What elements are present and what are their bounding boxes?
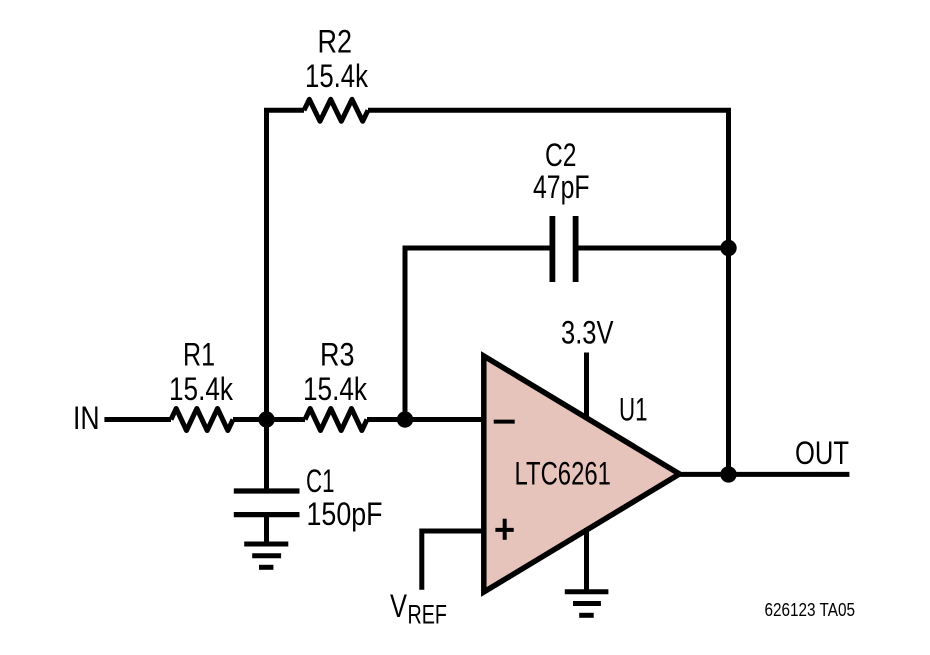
svg-text:15.4k: 15.4k [303, 371, 368, 407]
svg-text:C1: C1 [306, 463, 335, 499]
resistor R2 [304, 99, 368, 121]
wire: C2 to right vertical rail [579, 246, 729, 251]
svg-text:V: V [390, 588, 408, 624]
wire: 3.3V supply to op-amp [584, 353, 589, 420]
svg-text:U1: U1 [619, 391, 648, 427]
svg-text:R1: R1 [183, 337, 215, 373]
wire: C1 to ground [264, 515, 269, 544]
node A junction dot [258, 411, 274, 427]
svg-text:15.4k: 15.4k [305, 58, 369, 94]
ground (below C1) [244, 544, 288, 567]
wire: R3 to op-amp inverting input [367, 417, 484, 422]
svg-text:REF: REF [408, 599, 448, 629]
wire: IN to R1 [104, 417, 171, 422]
ground (below op-amp) [565, 592, 609, 616]
junction dot C2 / feedback rail [720, 240, 736, 256]
svg-text:R2: R2 [318, 24, 353, 60]
svg-text:C2: C2 [545, 137, 577, 173]
svg-text:150pF: 150pF [307, 496, 383, 532]
svg-text:LTC6261: LTC6261 [515, 456, 611, 492]
wire: node A up and across to R2 [267, 110, 305, 419]
wire: node A to R3 [233, 417, 305, 422]
capacitor C1 [234, 491, 300, 515]
junction dot output [720, 466, 736, 482]
wire: output to OUT [680, 472, 850, 477]
op-amp non-inverting input plus sign [495, 519, 513, 540]
svg-text:IN: IN [73, 400, 100, 436]
svg-text:3.3V: 3.3V [561, 314, 614, 350]
wire: R2 to right vertical rail [368, 110, 729, 474]
svg-text:626123 TA05: 626123 TA05 [765, 599, 856, 620]
svg-text:OUT: OUT [795, 435, 849, 471]
resistor R1 [171, 409, 233, 431]
label VREF [390, 588, 447, 629]
wire: VREF to op-amp non-inverting input [422, 531, 484, 590]
resistor R3 [305, 409, 367, 431]
svg-text:47pF: 47pF [533, 169, 590, 205]
svg-text:15.4k: 15.4k [169, 371, 234, 407]
capacitor C2 [552, 216, 575, 282]
wire: op-amp to ground [584, 528, 589, 592]
wire: node B up to C2 [405, 248, 550, 420]
wire: node A down to C1 [264, 420, 269, 492]
op-amp inverting input minus sign [494, 420, 515, 424]
op-amp U1 body [484, 356, 680, 592]
svg-text:R3: R3 [320, 337, 355, 373]
node B junction dot [397, 411, 413, 427]
